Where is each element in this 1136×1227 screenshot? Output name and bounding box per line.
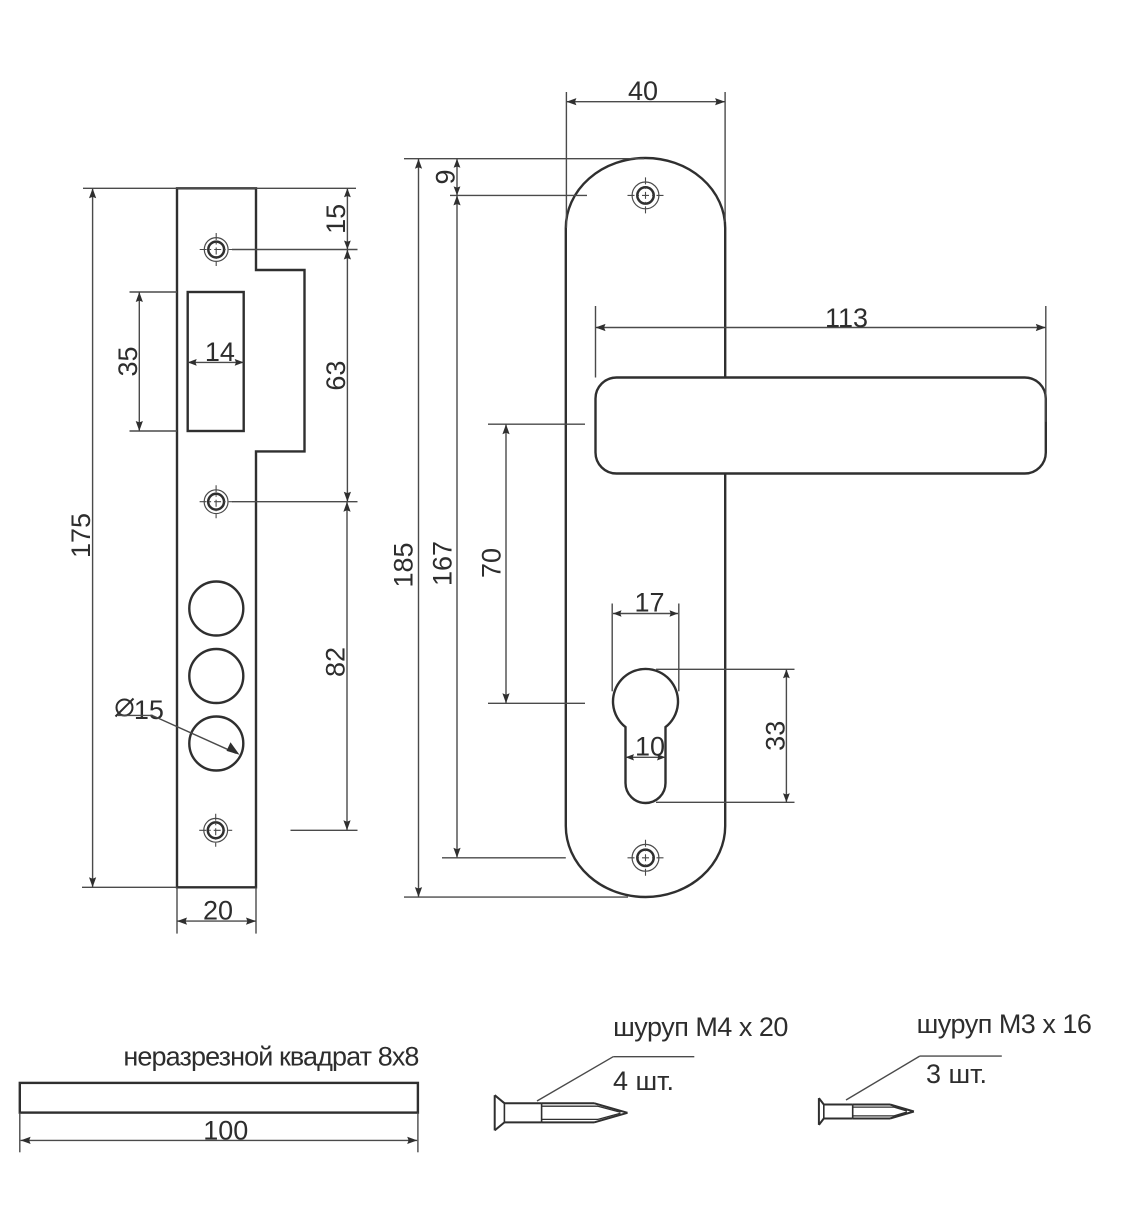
svg-text:3 шт.: 3 шт. xyxy=(926,1059,987,1089)
latch opening rectangle xyxy=(188,292,244,431)
extension line plate width right xyxy=(255,887,257,933)
extension line 100 right xyxy=(417,1113,419,1153)
dimension 40 xyxy=(566,76,725,106)
screw hole bottom-right xyxy=(628,840,664,876)
dimension 14 xyxy=(188,337,244,367)
screw hole mid-left xyxy=(200,485,233,518)
round hole 2 xyxy=(189,649,243,703)
dimension 17 xyxy=(613,588,678,618)
screw hole top-left xyxy=(200,233,233,266)
extension line 33 bottom xyxy=(656,801,795,803)
svg-text:175: 175 xyxy=(66,513,96,558)
svg-text:шуруп M3 x 16: шуруп M3 x 16 xyxy=(917,1009,1092,1039)
euro cylinder keyhole xyxy=(613,669,678,803)
extension line 185 bottom xyxy=(404,896,628,898)
svg-text:70: 70 xyxy=(477,548,507,578)
extension line plate top xyxy=(83,187,356,189)
dimension 9 xyxy=(431,159,461,196)
extension line 33 top xyxy=(656,668,795,670)
svg-text:15: 15 xyxy=(321,204,351,234)
svg-text:100: 100 xyxy=(203,1116,248,1146)
dimension 33 xyxy=(760,669,790,802)
svg-text:14: 14 xyxy=(205,337,235,367)
svg-text:шуруп M4 x 20: шуруп M4 x 20 xyxy=(613,1012,788,1042)
leader screw M4 xyxy=(537,1057,694,1101)
leader line diameter 15 xyxy=(118,715,240,754)
svg-text:17: 17 xyxy=(634,588,664,618)
dimension 167 xyxy=(428,195,461,857)
dimension 82 xyxy=(321,502,351,831)
extension line 167 bottom xyxy=(442,857,566,859)
screw hole bottom-left xyxy=(199,814,232,847)
svg-text:неразрезной квадрат 8x8: неразрезной квадрат 8x8 xyxy=(123,1042,418,1072)
extension line 113 left xyxy=(595,306,597,378)
dimension 113 xyxy=(596,303,1046,333)
extension line 17 left xyxy=(611,604,613,692)
svg-text:10: 10 xyxy=(635,731,665,761)
extension line plate top right view xyxy=(404,158,644,160)
svg-text:9: 9 xyxy=(431,169,461,184)
label screw M4 xyxy=(613,1012,788,1042)
extension line screw3 xyxy=(291,829,358,831)
extension line latch bottom xyxy=(130,430,178,432)
extension line 40 right xyxy=(724,92,726,222)
extension line latch top xyxy=(130,291,178,293)
svg-text:167: 167 xyxy=(428,541,458,586)
label screw M4 qty xyxy=(613,1066,674,1096)
leader screw M3 xyxy=(846,1056,1002,1100)
extension line plate bottom xyxy=(82,886,177,888)
extension line 70 top xyxy=(488,423,585,425)
svg-text:20: 20 xyxy=(203,895,233,925)
dimension 15 xyxy=(321,188,351,249)
round hole 3 xyxy=(189,717,243,771)
extension line plate width left xyxy=(176,887,178,933)
svg-text:82: 82 xyxy=(321,647,351,677)
dimension 175 xyxy=(66,188,96,887)
svg-text:15: 15 xyxy=(134,695,164,725)
svg-text:35: 35 xyxy=(113,346,143,376)
extension line screw top right view xyxy=(450,194,587,196)
svg-text:40: 40 xyxy=(628,76,658,106)
dimension 20 xyxy=(177,895,256,925)
extension line 70 bottom xyxy=(488,702,585,704)
extension line screw2 xyxy=(232,501,358,503)
extension line 113 right xyxy=(1045,306,1047,422)
svg-text:4 шт.: 4 шт. xyxy=(613,1066,674,1096)
svg-text:63: 63 xyxy=(321,361,351,391)
extension line screw1 xyxy=(232,249,358,251)
dimension 70 xyxy=(477,424,510,703)
square spindle bar xyxy=(20,1083,418,1113)
screw hole top-right xyxy=(628,177,664,213)
label screw M3 xyxy=(917,1009,1092,1039)
strike plate outline xyxy=(177,188,305,887)
svg-text:33: 33 xyxy=(760,721,790,751)
label square bar xyxy=(123,1042,418,1072)
door handle xyxy=(596,378,1046,474)
screw M4 x 20 xyxy=(495,1095,628,1130)
extension line 40 left xyxy=(565,92,567,228)
label diameter 15 xyxy=(116,695,164,725)
label screw M3 qty xyxy=(926,1059,987,1089)
backplate outline xyxy=(566,158,725,897)
svg-text:185: 185 xyxy=(389,542,419,587)
dimension 10 xyxy=(626,731,666,761)
extension line 100 left xyxy=(19,1113,21,1153)
round hole 1 xyxy=(189,582,243,636)
svg-text:113: 113 xyxy=(825,303,868,333)
extension line 17 right xyxy=(678,604,680,692)
dimension 35 xyxy=(113,292,143,431)
dimension 63 xyxy=(321,250,351,502)
dimension 185 xyxy=(389,159,423,897)
dimension 100 xyxy=(21,1116,418,1146)
screw M3 x 16 xyxy=(819,1098,914,1125)
